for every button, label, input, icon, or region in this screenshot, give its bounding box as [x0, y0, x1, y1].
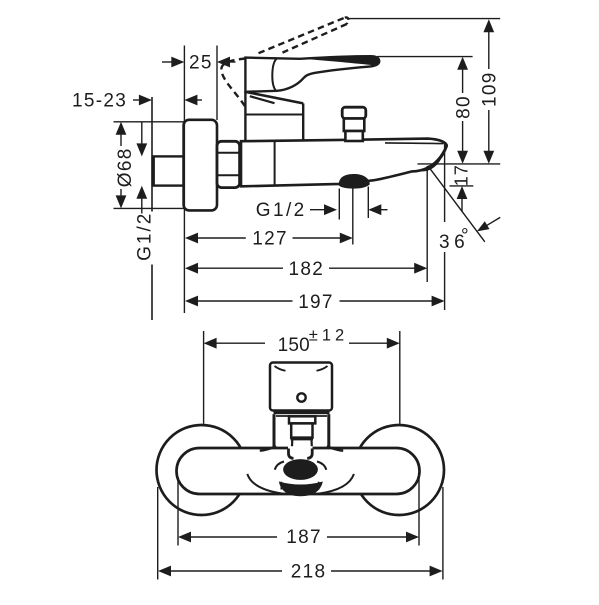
bowl ticks	[281, 482, 318, 490]
handle dot	[297, 393, 305, 401]
cartridge sleeve	[273, 414, 276, 446]
left escutcheon circle	[157, 425, 247, 515]
diverter knob base	[345, 131, 362, 141]
handle (front)	[270, 363, 332, 411]
neck step 3	[291, 438, 314, 440]
dim 187	[178, 532, 191, 543]
body pill	[177, 448, 420, 494]
svg-text:Ø68: Ø68	[115, 147, 136, 187]
aerator (front, black)	[283, 459, 318, 480]
dim 80	[457, 57, 468, 70]
outlet bowl (black crescent)	[279, 482, 323, 497]
wall line	[151, 97, 153, 320]
diverter knob cap	[342, 107, 366, 118]
wall nipple G1/2	[153, 156, 184, 185]
36° cut angle line	[428, 166, 485, 242]
dim G1/2 (left, wall thread)	[141, 122, 143, 144]
left swirl	[275, 462, 284, 470]
ext line spout outlet level	[418, 163, 501, 165]
cartridge block right edge	[302, 103, 304, 141]
spout tip opening (black wedge)	[412, 142, 446, 172]
dim Ø68	[114, 121, 184, 123]
ext lines 150	[203, 331, 205, 424]
handle corner ticks	[275, 366, 286, 371]
right swirl	[317, 462, 326, 470]
dim 197	[185, 296, 198, 307]
handle top black edge	[303, 56, 379, 65]
cartridge block left edge	[244, 92, 246, 141]
ext line x=217 (flange front)	[216, 46, 218, 121]
dim 127	[185, 233, 198, 244]
right body arc	[318, 474, 354, 494]
36° arrow	[487, 217, 500, 225]
ext line 17 lower	[450, 185, 474, 187]
ext line 182 (spout bottom tip)	[426, 166, 428, 282]
aerator outlet (black dome under spout)	[339, 174, 370, 189]
neck step 2	[291, 423, 312, 437]
spout inner lip line	[385, 142, 444, 145]
svg-text:G1/2: G1/2	[256, 200, 307, 221]
ext line lever top	[377, 56, 473, 58]
cartridge block mid line	[245, 114, 303, 116]
left body arc	[247, 474, 283, 494]
neck step 1	[289, 416, 315, 423]
dim 25	[162, 61, 174, 63]
ext line x=184.4 (wall plate rear)	[183, 46, 185, 314]
erase pill top line under neck	[288, 444, 313, 453]
ext line 197 (spout tip)	[444, 143, 446, 310]
handle raised position (dashed)	[259, 18, 345, 54]
svg-text:G1/2: G1/2	[135, 212, 156, 261]
dim 182	[185, 263, 198, 274]
body/spout seam	[274, 141, 276, 185]
spout neck (front)	[289, 449, 294, 459]
svg-text:80: 80	[454, 95, 475, 119]
svg-text:127: 127	[252, 228, 288, 249]
top ext line (raised lever)	[348, 18, 501, 20]
handle base band	[274, 410, 330, 414]
dim 218	[158, 566, 171, 577]
svg-text:182: 182	[289, 259, 325, 280]
body + spout outline	[241, 139, 447, 187]
svg-text:°: °	[461, 226, 470, 247]
ext lines outlet	[338, 189, 340, 220]
svg-text:15-23: 15-23	[72, 91, 127, 112]
ext line outlet centre	[352, 188, 354, 245]
ext lines 218	[157, 487, 159, 580]
svg-text:150: 150	[278, 335, 310, 356]
svg-text:218: 218	[291, 561, 327, 582]
hex connection nut	[217, 141, 240, 187]
escutcheon (wall flange, side)	[184, 120, 217, 211]
dim 109	[483, 19, 494, 32]
right escutcheon circle	[354, 425, 444, 515]
svg-text:197: 197	[298, 292, 334, 313]
svg-text:187: 187	[286, 527, 322, 548]
bell flares	[260, 446, 276, 451]
svg-text:17: 17	[452, 164, 472, 186]
svg-text:±12: ±12	[309, 327, 348, 345]
dim 17	[452, 164, 472, 186]
cartridge block top slant	[245, 92, 303, 104]
svg-text:109: 109	[480, 71, 501, 107]
cartridge cover wedge line	[250, 96, 275, 103]
ext lines 187	[177, 477, 179, 546]
handle lever (solid position)	[245, 56, 379, 92]
diverter knob stem	[344, 119, 365, 132]
handle inner curve	[272, 59, 276, 91]
svg-text:25: 25	[189, 52, 213, 73]
dim 150±12	[204, 338, 217, 349]
